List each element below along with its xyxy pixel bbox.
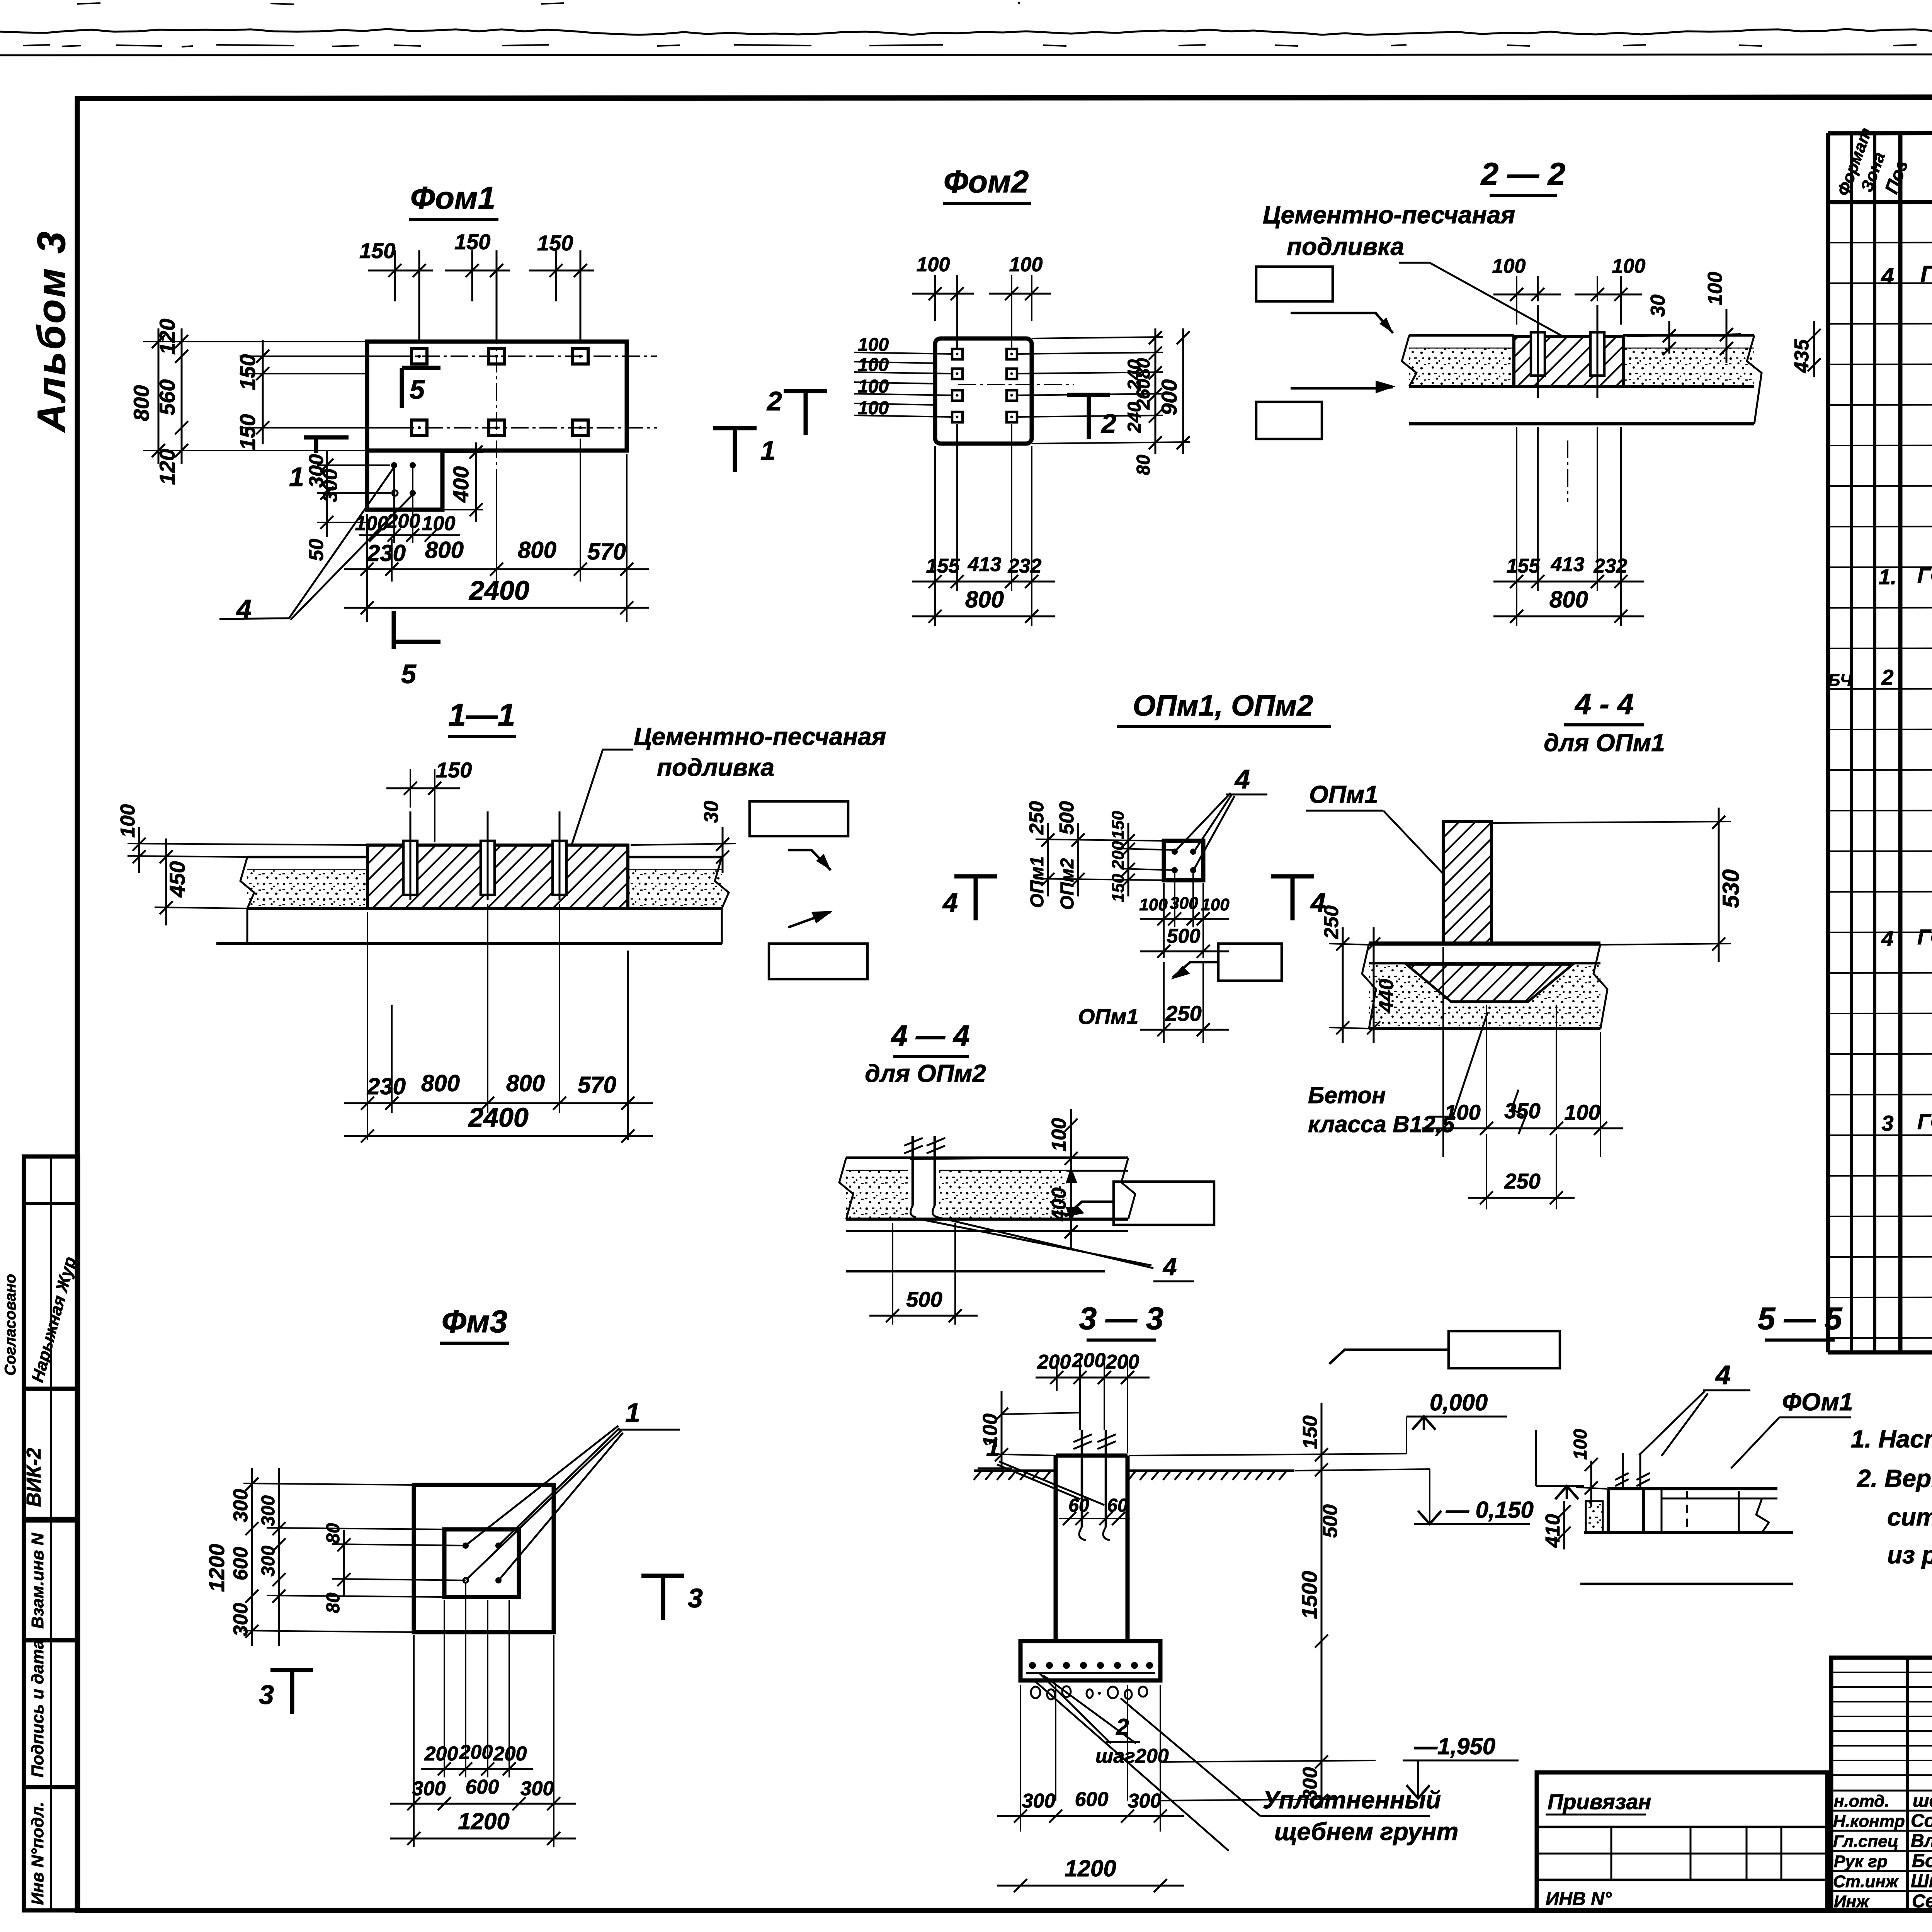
svg-text:150: 150 — [454, 230, 490, 254]
svg-text:300: 300 — [412, 1777, 446, 1800]
svg-text:300: 300 — [1022, 1790, 1056, 1812]
svg-text:900: 900 — [1157, 379, 1181, 415]
wall verticals — [1607, 1489, 1610, 1532]
svg-text:200: 200 — [459, 1741, 493, 1764]
break marks — [240, 857, 254, 944]
svg-text:— 0,150: — 0,150 — [1446, 1497, 1534, 1523]
bolt dots in step with leader 4 — [219, 462, 416, 624]
level -1,950 — [1160, 1760, 1376, 1762]
svg-text:200: 200 — [1109, 841, 1128, 870]
svg-text:для ОПм2: для ОПм2 — [865, 1060, 986, 1087]
svg-text:Цементно-песчаная: Цементно-песчаная — [1263, 201, 1515, 229]
leader 1 (4 lines) — [466, 1426, 618, 1545]
aggregate circles below — [1031, 1686, 1147, 1699]
right dim 530 — [1492, 808, 1744, 962]
section mark 3 left — [259, 1670, 313, 1714]
svg-text:Согласовано: Согласовано — [2, 1274, 19, 1376]
break marks — [839, 1158, 853, 1219]
section mark 4 left — [942, 876, 997, 920]
svg-text:200: 200 — [1037, 1351, 1071, 1373]
break marks on bolts — [1615, 1473, 1629, 1486]
svg-text:100: 100 — [1704, 272, 1726, 305]
svg-text:н.отд.: н.отд. — [1834, 1792, 1889, 1811]
section mark 2 bottom — [1067, 395, 1116, 439]
pier stem — [1056, 1456, 1128, 1641]
rotated dims 30 / 100 right — [1627, 272, 1741, 363]
bottom dim 2400 — [344, 575, 649, 614]
bottom dim 500 — [869, 1223, 978, 1325]
svg-text:600: 600 — [466, 1776, 499, 1798]
svg-text:150: 150 — [1109, 874, 1128, 902]
callout arrow down — [1291, 313, 1393, 333]
bottom dims 100 350 100 / 250 — [1422, 947, 1623, 1209]
svg-text:100: 100 — [858, 376, 889, 397]
anchor bolts in stem — [1073, 1430, 1116, 1540]
svg-text:150: 150 — [1299, 1415, 1321, 1449]
svg-text:200: 200 — [493, 1743, 527, 1765]
svg-text:1200: 1200 — [1065, 1855, 1116, 1881]
svg-text:ГОСТ 24379.1-80: ГОСТ 24379.1-80 — [1920, 261, 1932, 287]
svg-text:шаг200: шаг200 — [1095, 1745, 1169, 1767]
svg-text:100: 100 — [1009, 253, 1043, 276]
inner square — [444, 1529, 519, 1597]
bolt B5 — [489, 420, 504, 435]
svg-text:250: 250 — [1504, 1169, 1540, 1193]
svg-text:435: 435 — [1791, 339, 1813, 373]
svg-text:ОПм1, ОПм2: ОПм1, ОПм2 — [1133, 689, 1313, 722]
svg-text:570: 570 — [578, 1072, 616, 1098]
lower-left small dims 50 300 300 — [305, 450, 391, 561]
bolt B3 — [573, 349, 588, 364]
svg-text:4: 4 — [1715, 1360, 1731, 1390]
svg-text:0,000: 0,000 — [1430, 1389, 1488, 1415]
section mark 5 top — [402, 368, 440, 408]
svg-text:1200: 1200 — [204, 1544, 229, 1592]
bolt B6 — [573, 420, 588, 435]
leader to block — [1399, 263, 1561, 335]
svg-text:Н.контр: Н.контр — [1833, 1812, 1905, 1831]
svg-text:100: 100 — [858, 335, 889, 355]
svg-text:300: 300 — [1128, 1790, 1162, 1812]
svg-text:300: 300 — [230, 1489, 252, 1522]
svg-text:230: 230 — [367, 540, 406, 566]
break marks — [1402, 335, 1417, 386]
header bottom line — [1828, 201, 1932, 202]
hatched stem — [1443, 821, 1492, 944]
bottom dims row 100 200 100 — [355, 468, 460, 543]
svg-text:1.: 1. — [1879, 565, 1897, 589]
svg-text:155: 155 — [1507, 555, 1541, 577]
centerline col mid — [496, 298, 497, 580]
centerline row2 — [282, 427, 657, 429]
svg-text:Цементно-песчаная: Цементно-песчаная — [634, 723, 886, 750]
svg-text:Рук гр: Рук гр — [1834, 1852, 1888, 1871]
svg-text:Подпись и дата: Подпись и дата — [28, 1639, 47, 1777]
svg-text:800: 800 — [518, 537, 556, 563]
svg-text:100: 100 — [1570, 1429, 1591, 1460]
bolt B1 — [412, 349, 427, 364]
svg-text:120: 120 — [155, 319, 179, 355]
left rotated dims OPm1 250 / OPm2 500 — [1026, 801, 1164, 910]
bolt slot right — [1590, 332, 1604, 376]
svg-text:2: 2 — [1881, 665, 1893, 689]
svg-text:2 — 2: 2 — 2 — [1480, 156, 1566, 192]
dim 400 right of step — [442, 442, 483, 522]
stipple bands — [1409, 349, 1514, 386]
svg-text:2400: 2400 — [468, 1102, 529, 1133]
callout box lower — [1256, 402, 1322, 439]
ground line with hatch — [974, 1471, 1294, 1480]
stipple band — [1369, 964, 1600, 1029]
centerline row1 — [336, 355, 657, 357]
svg-text:30: 30 — [700, 801, 723, 823]
svg-text:800: 800 — [1549, 587, 1588, 612]
rotated dim 435 far right — [1791, 321, 1821, 377]
svg-text:Ст.инж: Ст.инж — [1833, 1872, 1899, 1891]
svg-text:100: 100 — [117, 804, 139, 838]
leader 4 — [1175, 793, 1231, 851]
svg-text:Гл.спец: Гл.спец — [1833, 1832, 1898, 1851]
svg-text:200: 200 — [1072, 1349, 1106, 1372]
floor top lines — [247, 856, 367, 859]
bolt B4 — [412, 420, 427, 435]
dims 100 410 — [1576, 1487, 1607, 1489]
bottom slab lines — [846, 1218, 1128, 1221]
svg-text:100: 100 — [422, 512, 456, 535]
svg-text:4 — 4: 4 — 4 — [891, 1019, 970, 1052]
section mark 5 bottom — [394, 611, 440, 689]
bottom slab lines — [247, 907, 722, 910]
bottom dims 230 800 800 570 / 2400 — [344, 904, 653, 1143]
svg-text:100: 100 — [858, 398, 889, 418]
section mark 3 right — [641, 1576, 703, 1620]
svg-text:1—1: 1—1 — [448, 697, 515, 733]
svg-text:30: 30 — [1647, 294, 1669, 317]
right rotated dims 80 240 260 240 80 / 900 — [1017, 328, 1190, 475]
left dimension stack — [129, 319, 412, 485]
svg-text:4: 4 — [1881, 926, 1893, 951]
svg-text:300: 300 — [230, 1603, 252, 1636]
svg-text:200: 200 — [386, 510, 420, 532]
svg-text:250: 250 — [1320, 905, 1343, 939]
svg-text:Власенко: Власенко — [1911, 1831, 1932, 1851]
svg-text:Фм3: Фм3 — [442, 1304, 507, 1339]
svg-text:800: 800 — [421, 1070, 460, 1096]
svg-text:80: 80 — [1133, 454, 1154, 475]
svg-text:Инв N°подл.: Инв N°подл. — [28, 1802, 47, 1905]
svg-text:230: 230 — [367, 1073, 406, 1099]
floor top line — [1409, 334, 1514, 337]
svg-text:1: 1 — [625, 1398, 640, 1428]
svg-text:232: 232 — [1008, 555, 1042, 577]
svg-text:ОПм1: ОПм1 — [1027, 856, 1048, 908]
svg-text:Фом2: Фом2 — [944, 164, 1029, 199]
svg-text:1. Настоящий чертеж см. совмес: 1. Настоящий чертеж см. совместно с лист… — [1851, 1425, 1932, 1453]
svg-text:300: 300 — [1299, 1767, 1321, 1801]
svg-text:150: 150 — [537, 231, 573, 255]
svg-text:ВИК-2: ВИК-2 — [23, 1448, 45, 1507]
svg-text:100: 100 — [858, 355, 889, 375]
zigzag break right — [1756, 1498, 1769, 1532]
svg-text:80: 80 — [323, 1592, 344, 1613]
svg-text:250: 250 — [1165, 1001, 1201, 1026]
centerline of block — [1567, 440, 1568, 502]
svg-text:400: 400 — [449, 466, 473, 503]
top dim 150 — [386, 758, 472, 842]
svg-text:570: 570 — [587, 539, 626, 565]
svg-text:2: 2 — [1100, 408, 1116, 439]
svg-text:150: 150 — [359, 238, 395, 263]
section mark 2 right — [766, 386, 827, 435]
svg-text:100: 100 — [1444, 1100, 1480, 1124]
svg-text:ИНВ N°: ИНВ N° — [1546, 1889, 1612, 1909]
dashed vertical — [1686, 1491, 1688, 1532]
svg-text:410: 410 — [1542, 1514, 1564, 1548]
bottom dims 300 600 300 / 1200 — [997, 1685, 1184, 1892]
svg-text:150: 150 — [235, 354, 260, 390]
callout box upper — [1256, 267, 1333, 301]
svg-text:500: 500 — [906, 1287, 942, 1311]
leader 4 — [920, 1219, 1151, 1265]
bolt slot left — [1531, 332, 1545, 376]
svg-text:4 - 4: 4 - 4 — [1574, 688, 1634, 721]
bolts 2x4 — [952, 349, 1017, 422]
svg-text:для ОПм1: для ОПм1 — [1544, 729, 1665, 757]
svg-text:ГОСТ24379. 1-80: ГОСТ24379. 1-80 — [1917, 1109, 1932, 1134]
bottom lines — [1584, 1531, 1793, 1534]
svg-text:2400: 2400 — [468, 575, 529, 605]
svg-text:300: 300 — [1170, 894, 1198, 913]
svg-text:4: 4 — [1162, 1253, 1177, 1281]
bottom dims row 230 800 800 570 — [344, 439, 649, 622]
svg-text:ОПм2: ОПм2 — [1057, 858, 1078, 910]
svg-text:150: 150 — [436, 758, 472, 782]
cap slab lines — [1369, 942, 1600, 946]
left dims 100 x4 with long leader lines — [854, 335, 952, 418]
svg-text:500: 500 — [1056, 801, 1078, 835]
left grid verticals — [1906, 1658, 1909, 1910]
right dim 30 + callout boxes — [631, 801, 867, 979]
svg-text:—1,950: —1,950 — [1414, 1733, 1495, 1759]
svg-text:1: 1 — [986, 1434, 1000, 1461]
top dims 200 200 200 — [1036, 1349, 1150, 1453]
svg-text:ОПм1: ОПм1 — [1309, 781, 1378, 808]
section mark 1 right — [713, 428, 776, 472]
plan body outline — [367, 342, 627, 451]
svg-text:5: 5 — [410, 374, 425, 405]
svg-text:413: 413 — [968, 553, 1002, 576]
callout box — [1114, 1182, 1214, 1225]
svg-text:2: 2 — [766, 386, 782, 416]
row grid lines — [1828, 241, 1932, 1338]
bolt dots — [1172, 849, 1178, 855]
svg-text:150: 150 — [1109, 811, 1128, 839]
svg-text:50: 50 — [305, 539, 328, 561]
svg-text:3: 3 — [259, 1680, 274, 1710]
staff rows — [1831, 1791, 1932, 1891]
svg-text:100: 100 — [917, 253, 950, 276]
svg-text:4: 4 — [1234, 764, 1250, 794]
svg-text:1200: 1200 — [458, 1808, 509, 1834]
level 0,000 — [1412, 1417, 1435, 1430]
top dims 100 100 — [912, 253, 1051, 348]
svg-text:560: 560 — [155, 379, 179, 415]
svg-text:120: 120 — [155, 449, 179, 485]
svg-text:300: 300 — [258, 1495, 279, 1526]
svg-text:3: 3 — [688, 1583, 703, 1613]
outer square — [414, 1485, 554, 1632]
callout box — [1449, 1331, 1560, 1368]
left dim columns — [204, 1468, 466, 1646]
bottom dims 155 413 232 / 800 — [1493, 427, 1644, 626]
bottom dims 100 300 100 / 500 — [1139, 873, 1230, 958]
svg-text:100: 100 — [1492, 255, 1526, 277]
svg-text:530: 530 — [1718, 869, 1744, 908]
top slab line — [1607, 1487, 1777, 1490]
svg-text:100: 100 — [1139, 895, 1168, 914]
stipple band — [846, 1171, 908, 1219]
svg-text:100: 100 — [1048, 1118, 1070, 1151]
bolt B2 — [489, 349, 504, 364]
svg-text:Инж: Инж — [1834, 1892, 1870, 1911]
svg-text:4: 4 — [942, 888, 958, 918]
outer box — [1831, 1658, 1932, 1910]
hatched wedge footing — [1406, 964, 1573, 1002]
svg-text:500: 500 — [1167, 925, 1201, 947]
bottom dims 200 200 200 — [421, 1583, 533, 1777]
svg-text:240: 240 — [1124, 402, 1145, 433]
break in dim line — [1512, 1090, 1526, 1134]
svg-text:шейко: шейко — [1913, 1791, 1932, 1811]
square plan — [1164, 841, 1203, 880]
svg-text:100: 100 — [1201, 895, 1230, 914]
svg-text:3 — 3: 3 — 3 — [1079, 1301, 1164, 1336]
svg-text:500: 500 — [1319, 1504, 1342, 1538]
left dims 100 400 — [910, 1109, 1078, 1248]
svg-text:класса В12,5: класса В12,5 — [1308, 1111, 1455, 1137]
svg-text:100: 100 — [1612, 255, 1646, 277]
svg-text:1: 1 — [760, 435, 776, 466]
section mark 4 right — [1271, 876, 1326, 920]
bottom line — [1369, 1027, 1600, 1030]
svg-text:300: 300 — [520, 1777, 554, 1800]
break marks — [1362, 944, 1376, 1029]
svg-text:Привязан: Привязан — [1548, 1789, 1651, 1814]
svg-text:1: 1 — [289, 462, 304, 492]
dim 60 60 — [1059, 1495, 1130, 1525]
hatched block — [367, 845, 628, 908]
column lines — [1850, 133, 1853, 1352]
svg-text:100: 100 — [355, 512, 389, 535]
svg-text:80: 80 — [323, 1523, 344, 1544]
svg-text:200: 200 — [424, 1743, 458, 1765]
rebar dots in footing — [1029, 1662, 1153, 1669]
svg-text:Взам.инв N: Взам.инв N — [28, 1532, 47, 1629]
svg-text:5: 5 — [401, 659, 417, 689]
svg-text:подливка: подливка — [1287, 233, 1404, 260]
top dimension 150 (x3) — [359, 230, 594, 342]
step notch bottom-left — [367, 451, 442, 510]
section mark 1 left — [289, 437, 349, 492]
svg-text:300: 300 — [319, 469, 342, 502]
lower dim OPm1 250 — [1078, 962, 1229, 1043]
bottom dims 155 413 232 / 800 — [912, 424, 1055, 626]
svg-text:250: 250 — [1026, 801, 1048, 835]
inner rotated dims 150 200 150 — [1109, 811, 1175, 902]
drawing — [1536, 1429, 1793, 1584]
dim 100 left — [979, 1391, 1080, 1472]
svg-text:Боровик: Боровик — [1912, 1851, 1932, 1871]
svg-text:подливка: подливка — [657, 753, 774, 781]
svg-text:300: 300 — [258, 1546, 279, 1577]
svg-text:100: 100 — [1564, 1100, 1600, 1124]
svg-text:155: 155 — [926, 555, 960, 577]
centerline mid horizontal — [958, 384, 1074, 385]
svg-text:ФОм1: ФОм1 — [1782, 1388, 1853, 1416]
SCAN ARTIFACTS TOP — [0, 3, 1932, 55]
svg-text:350: 350 — [1504, 1099, 1540, 1123]
svg-text:800: 800 — [965, 587, 1004, 612]
svg-text:150: 150 — [235, 414, 260, 450]
LEFT MARGIN STAMP BOXES — [2, 1156, 80, 1910]
break marks at bolt top — [904, 1138, 923, 1153]
left dims 100 450 — [117, 804, 367, 925]
svg-text:800: 800 — [506, 1070, 545, 1096]
svg-text:сить двумя слоями горячего бит: сить двумя слоями горячего битума по огр… — [1887, 1503, 1932, 1531]
bolt dots — [463, 1543, 469, 1549]
svg-text:щебнем грунт: щебнем грунт — [1274, 1818, 1458, 1845]
stipple bands — [247, 870, 367, 908]
bottom slab lines — [1409, 385, 1754, 388]
svg-text:2. Вертикальные поверхности фу: 2. Вертикальные поверхности фундаментов … — [1857, 1464, 1932, 1492]
svg-text:600: 600 — [230, 1547, 252, 1580]
svg-text:450: 450 — [165, 861, 189, 898]
bolt slots x3 — [403, 841, 417, 895]
svg-text:4: 4 — [1881, 263, 1894, 289]
small stipple pad — [1586, 1501, 1603, 1533]
svg-text:Бетон: Бетон — [1308, 1082, 1386, 1108]
footing — [1020, 1641, 1160, 1680]
svg-text:ГОСТ24379. 1-80: ГОСТ24379. 1-80 — [1917, 925, 1932, 949]
left dims 250 440 — [1320, 905, 1398, 1043]
svg-text:232: 232 — [1594, 555, 1628, 577]
left fine rows — [1831, 1672, 1932, 1775]
slab top lines — [846, 1156, 1128, 1159]
level arrow left — [1555, 1486, 1578, 1499]
right elevation marks — [1129, 1389, 1534, 1808]
svg-text:413: 413 — [1551, 553, 1585, 576]
svg-text:Фом1: Фом1 — [410, 180, 495, 216]
svg-text:Альбом 3: Альбом 3 — [29, 230, 73, 433]
top dims 100 100 — [1492, 255, 1646, 325]
table outline — [1828, 132, 1932, 133]
svg-text:ГОСТ 24379. 1-80: ГОСТ 24379. 1-80 — [1917, 563, 1932, 587]
svg-text:800: 800 — [425, 537, 464, 563]
svg-text:Середняк: Середняк — [1912, 1891, 1932, 1912]
callout arrow up — [1291, 387, 1393, 388]
svg-text:440: 440 — [1375, 979, 1398, 1013]
svg-text:200: 200 — [1105, 1351, 1139, 1373]
svg-text:60: 60 — [1107, 1495, 1128, 1516]
level -0,150 — [1418, 1511, 1441, 1524]
callout box — [1218, 944, 1282, 981]
svg-text:из раствора битума в бензине.: из раствора битума в бензине. — [1887, 1541, 1932, 1569]
bottom dims 300 600 300 / 1200 — [390, 1635, 576, 1847]
svg-text:1500: 1500 — [1297, 1571, 1321, 1619]
svg-text:3: 3 — [1881, 1111, 1893, 1135]
plan outline — [935, 338, 1032, 444]
svg-text:ОПм1: ОПм1 — [1078, 1004, 1138, 1029]
